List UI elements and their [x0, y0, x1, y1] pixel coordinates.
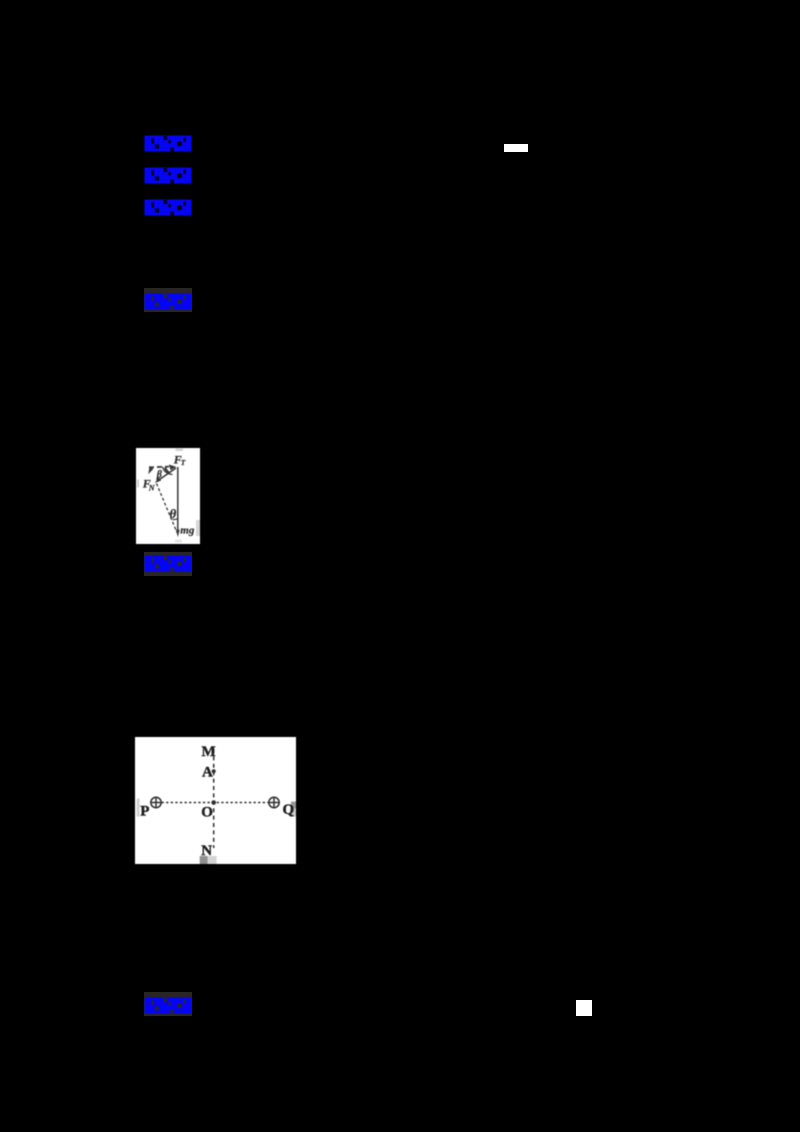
svg-text:θ: θ — [170, 506, 177, 521]
svg-text:A: A — [202, 764, 213, 780]
svg-text:P: P — [140, 804, 149, 820]
svg-text:β: β — [156, 469, 163, 480]
svg-text:T: T — [181, 458, 186, 467]
svg-text:M: M — [202, 744, 216, 760]
svg-text:Q: Q — [283, 802, 295, 818]
svg-text:mg: mg — [180, 525, 195, 537]
svg-text:N: N — [201, 843, 212, 859]
svg-text:O: O — [201, 805, 213, 821]
